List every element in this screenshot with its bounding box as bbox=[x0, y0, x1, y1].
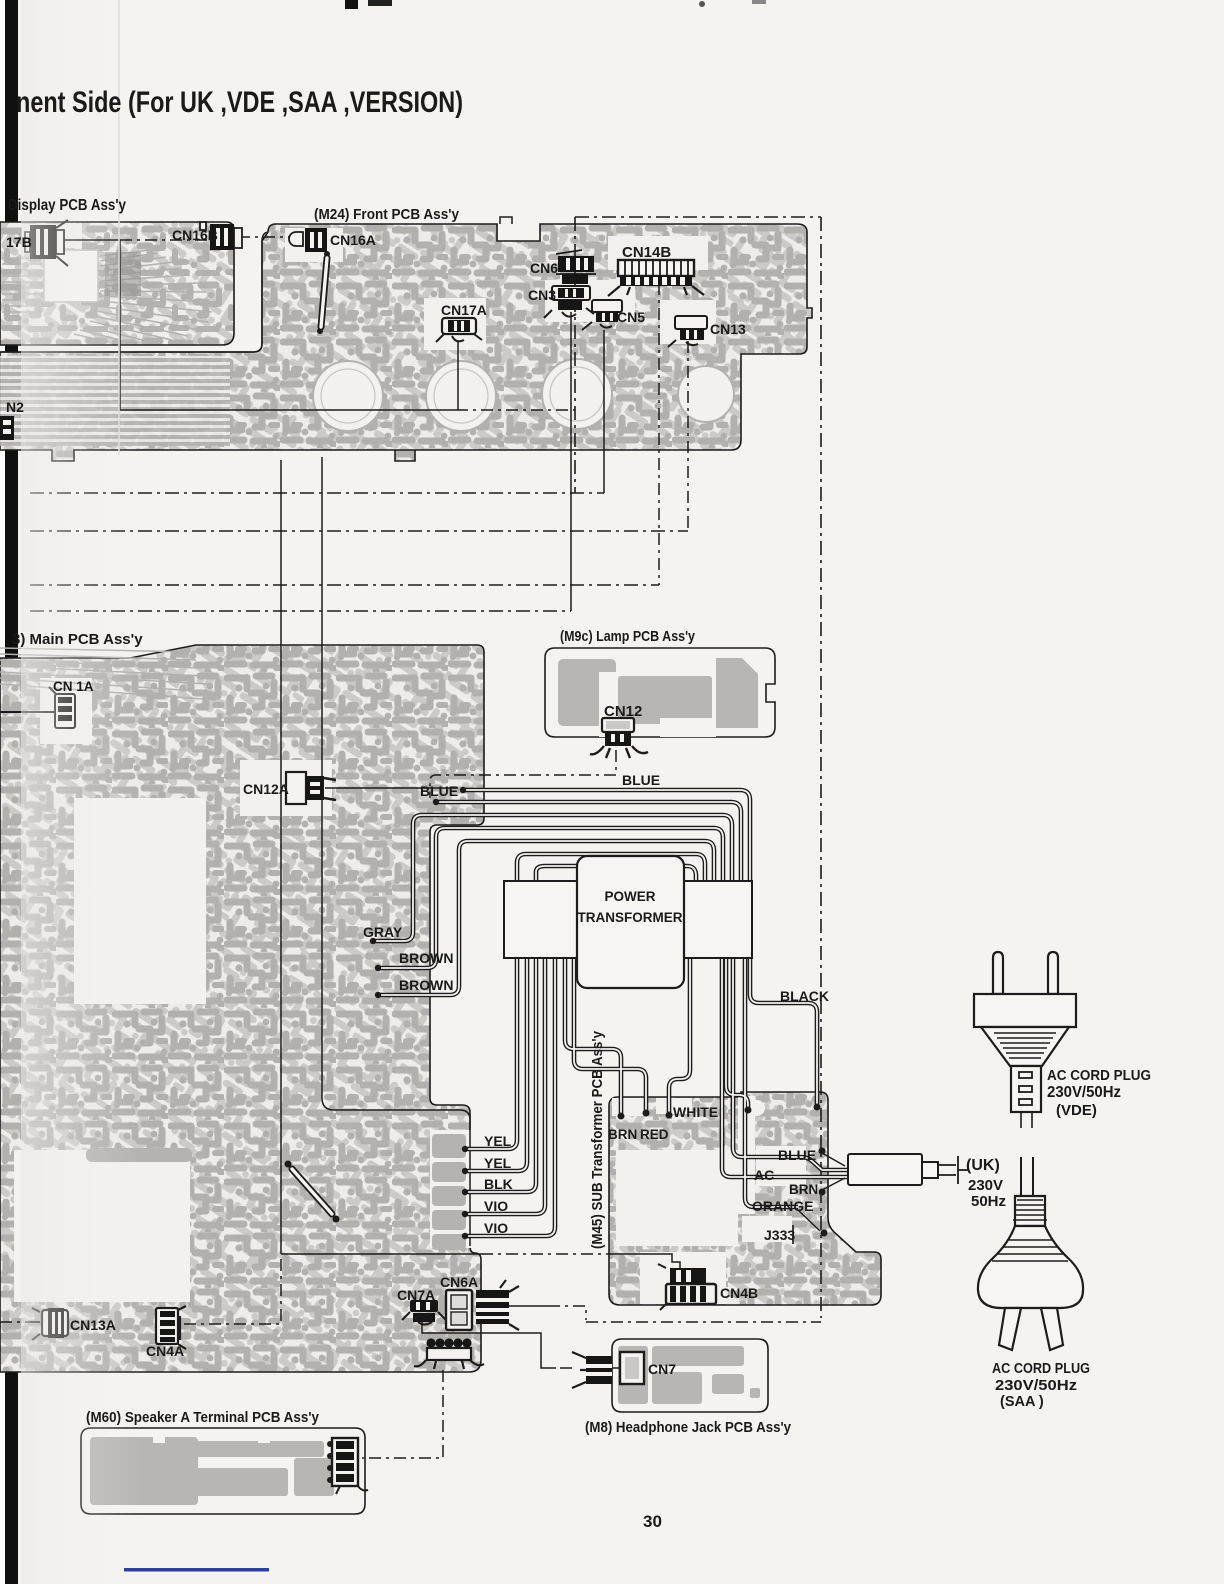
wire BROWN 2 bbox=[378, 841, 714, 995]
svg-text:VIO: VIO bbox=[484, 1220, 508, 1236]
white clearings main pcb bbox=[74, 798, 206, 1004]
svg-text:POWER: POWER bbox=[604, 889, 655, 904]
top tab bbox=[500, 217, 512, 224]
book spine black strip bbox=[5, 0, 18, 1584]
connector speaker terminal comb bbox=[327, 1438, 368, 1494]
connector CN4B bbox=[658, 1264, 716, 1310]
connector CN1A bbox=[0, 687, 75, 728]
svg-text:(VDE): (VDE) bbox=[1056, 1102, 1097, 1119]
svg-text:230V/50Hz: 230V/50Hz bbox=[995, 1378, 1077, 1394]
svg-text:CN13A: CN13A bbox=[70, 1317, 116, 1333]
svg-text:(M60) Speaker A Terminal PCB: (M60) Speaker A Terminal PCB Ass'y bbox=[86, 1409, 320, 1426]
connector CN3 bbox=[544, 286, 594, 318]
svg-text:AC CORD PLUG: AC CORD PLUG bbox=[1047, 1068, 1151, 1084]
connector CN13A bbox=[30, 1308, 68, 1340]
svg-text:VIO: VIO bbox=[484, 1198, 508, 1214]
white clearings sub pcb bbox=[616, 1150, 738, 1246]
leader CN16B to CN16A bbox=[238, 236, 303, 238]
wire from CN12 blue dot bbox=[436, 802, 741, 881]
CN4A chain bbox=[184, 1254, 281, 1324]
svg-text:ORANGE: ORANGE bbox=[752, 1198, 813, 1214]
svg-text:CN12: CN12 bbox=[604, 703, 642, 720]
leader CN17B to board bbox=[56, 240, 456, 410]
connector CN16B bbox=[200, 222, 242, 250]
svg-text:BRN: BRN bbox=[789, 1182, 818, 1197]
transformer left coil block bbox=[504, 881, 577, 958]
connector CN13 bbox=[668, 316, 707, 347]
wire to SUB top pad bbox=[726, 958, 748, 1108]
(M8) Headphone Jack PCB Ass'y board bbox=[612, 1339, 768, 1412]
svg-text:BLK: BLK bbox=[484, 1176, 513, 1192]
svg-text:TRANSFORMER: TRANSFORMER bbox=[578, 910, 683, 925]
ribbon texture left part of band bbox=[0, 356, 230, 446]
svg-text:CN5: CN5 bbox=[617, 309, 645, 325]
loom riser from left block pins bbox=[517, 854, 705, 881]
WHITE wire bbox=[669, 958, 690, 1112]
big pad circles in band bbox=[313, 359, 734, 431]
top edge specks bbox=[345, 0, 358, 9]
wire CN7A to headphone plug bbox=[422, 1322, 556, 1368]
svg-text:GRAY: GRAY bbox=[363, 924, 403, 940]
Display PCB Ass'y board bbox=[0, 222, 234, 345]
CN13A chain bbox=[0, 1321, 42, 1323]
connector CN14B bbox=[608, 260, 704, 296]
svg-text:CN4B: CN4B bbox=[720, 1285, 758, 1301]
svg-text:230V/50Hz: 230V/50Hz bbox=[1047, 1084, 1121, 1101]
J333 tick bbox=[792, 1225, 794, 1244]
svg-text:(UK): (UK) bbox=[966, 1157, 1000, 1174]
horizontal chains between front and main boards bbox=[30, 492, 604, 494]
wire GRAY bbox=[373, 815, 732, 941]
wire BLUE top run bbox=[463, 790, 750, 881]
svg-text:BLUE: BLUE bbox=[420, 783, 458, 799]
svg-text:CN 1A: CN 1A bbox=[53, 679, 94, 694]
thin fan lines top left bbox=[0, 648, 216, 700]
(M9c) Lamp PCB Ass'y board bbox=[545, 648, 775, 737]
(M60) Speaker A Terminal PCB Ass'y board bbox=[81, 1428, 365, 1514]
AC cord plug SAA 230V/50Hz bbox=[1021, 1157, 1033, 1197]
connector CN6 bbox=[556, 250, 596, 284]
(M24) Front PCB Ass'y board with bottom ribbon band bbox=[0, 217, 812, 461]
svg-text:3) Main PCB Ass'y: 3) Main PCB Ass'y bbox=[12, 631, 143, 648]
(M13) Main PCB Ass'y board bbox=[0, 645, 484, 1372]
svg-text:Display PCB Ass'y: Display PCB Ass'y bbox=[8, 197, 126, 214]
connector CN5 bbox=[582, 300, 622, 330]
(M45) SUB Transformer PCB Ass'y board bbox=[609, 1092, 881, 1305]
svg-text:BROWN: BROWN bbox=[399, 950, 453, 966]
svg-text:BROWN: BROWN bbox=[399, 977, 453, 993]
svg-text:17B: 17B bbox=[6, 234, 32, 250]
connector CN17A bbox=[436, 318, 482, 342]
svg-text:(SAA ): (SAA ) bbox=[1000, 1394, 1044, 1410]
svg-text:(M9c) Lamp PCB Ass'y: (M9c) Lamp PCB Ass'y bbox=[560, 628, 696, 645]
svg-text:CN3: CN3 bbox=[528, 287, 556, 303]
svg-text:RED: RED bbox=[640, 1127, 669, 1142]
svg-text:(M8) Headphone Jack PCB Ass'y: (M8) Headphone Jack PCB Ass'y bbox=[585, 1419, 792, 1436]
svg-text:CN16A: CN16A bbox=[330, 232, 376, 248]
svg-text:CN4A: CN4A bbox=[146, 1343, 184, 1359]
connector CN7A bbox=[402, 1300, 446, 1325]
svg-text:CN12A: CN12A bbox=[243, 781, 289, 797]
left block lower pins to YEL/BLK/VIO stubs bbox=[465, 958, 517, 1149]
ball connector chain down to speaker bbox=[362, 1370, 443, 1458]
svg-text:BLUE: BLUE bbox=[622, 772, 660, 788]
svg-text:50Hz: 50Hz bbox=[971, 1193, 1006, 1210]
AC cord plug VDE 230V/50Hz bbox=[974, 952, 1076, 1112]
connector CN16A bbox=[289, 228, 327, 252]
connector CN4A bbox=[156, 1306, 186, 1349]
svg-text:WHITE: WHITE bbox=[673, 1104, 718, 1120]
wire BROWN 1 bbox=[378, 828, 723, 968]
BLACK wire bbox=[750, 958, 817, 1104]
svg-text:BLUE: BLUE bbox=[778, 1147, 816, 1163]
BRN (UK) wire bbox=[722, 958, 848, 1177]
svg-text:CN13: CN13 bbox=[710, 321, 746, 337]
AC inline connector UK 230V/50Hz bbox=[848, 1154, 938, 1185]
svg-text:BLACK: BLACK bbox=[780, 988, 829, 1004]
svg-text:YEL: YEL bbox=[484, 1133, 512, 1149]
chain mid page y1254 bbox=[281, 1253, 481, 1255]
ORANGE wire bbox=[745, 958, 798, 1207]
transformer right coil block bbox=[684, 881, 752, 958]
connector CN12 bbox=[590, 718, 648, 758]
long verticals front to main bbox=[280, 460, 282, 1254]
power transformer core box bbox=[577, 856, 684, 988]
BRN / RED wires bbox=[565, 958, 621, 1113]
svg-text:AC CORD PLUG: AC CORD PLUG bbox=[992, 1361, 1090, 1377]
connector risers through band bbox=[570, 312, 572, 611]
svg-text:CN7: CN7 bbox=[648, 1361, 676, 1377]
svg-text:230V: 230V bbox=[968, 1177, 1003, 1194]
BLUE (UK) wire bbox=[733, 958, 848, 1170]
svg-text:BRN: BRN bbox=[608, 1127, 637, 1142]
left gutter shading overlay bbox=[21, 0, 141, 1584]
svg-text:CN6: CN6 bbox=[530, 260, 558, 276]
connector 5-pin ball header bbox=[414, 1338, 484, 1369]
svg-text:CN17A: CN17A bbox=[441, 302, 487, 318]
svg-text:CN7A: CN7A bbox=[397, 1287, 435, 1303]
connector CN12A bbox=[286, 772, 336, 804]
svg-text:AC: AC bbox=[754, 1167, 774, 1183]
wire headphone plug link bbox=[560, 1367, 620, 1369]
jumper sticks bbox=[292, 258, 332, 1214]
svg-text:J333: J333 bbox=[764, 1227, 795, 1243]
connector CN2 bbox=[0, 416, 14, 440]
wire end dots bbox=[285, 251, 828, 1239]
chain rect top bbox=[575, 216, 821, 218]
thin leader from orange to J333 dot bbox=[798, 1210, 820, 1231]
svg-text:CN6A: CN6A bbox=[440, 1274, 478, 1290]
lamp CN12 blue leader bbox=[430, 750, 616, 798]
svg-text:CN14B: CN14B bbox=[622, 244, 671, 261]
svg-text:YEL: YEL bbox=[484, 1155, 512, 1171]
svg-text:(M24) Front PCB Ass'y: (M24) Front PCB Ass'y bbox=[314, 206, 460, 223]
white clearings bbox=[424, 298, 486, 350]
long vertical chain to SUB pcb bbox=[820, 217, 822, 1318]
CN12A leader bbox=[325, 787, 458, 789]
connector CN17B bbox=[25, 220, 68, 266]
svg-text:N2: N2 bbox=[6, 399, 24, 415]
connector CN6A bbox=[446, 1280, 519, 1330]
svg-text:(M45) SUB Transformer PCB Ass': (M45) SUB Transformer PCB Ass'y bbox=[590, 1031, 606, 1249]
svg-text:nent Side (For UK ,VDE ,SAA ,V: nent Side (For UK ,VDE ,SAA ,VERSION) bbox=[16, 86, 463, 119]
leader CN17A riser bbox=[457, 342, 459, 410]
connector CN7 and headphone plug bbox=[572, 1352, 644, 1388]
svg-text:CN16B: CN16B bbox=[172, 227, 218, 243]
svg-text:30: 30 bbox=[643, 1512, 662, 1531]
CN6A chain to SUB bbox=[509, 1305, 548, 1307]
blue mark at bottom bbox=[124, 1568, 269, 1572]
